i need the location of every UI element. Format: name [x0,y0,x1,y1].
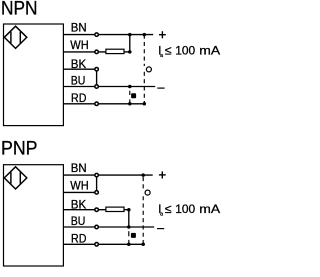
plus terminal NPN [159,31,166,38]
svg-text:100: 100 [175,43,195,57]
terminal BN PNP [95,173,99,177]
terminal BN NPN [95,33,99,37]
dashed load line left NPN [129,91,131,95]
wire BN NPN [64,34,154,36]
sensor symbol (diamond) NPN [4,26,27,48]
svg-text:≤: ≤ [165,43,172,57]
dashed load line right NPN (upper) [143,35,145,66]
svg-text:≤: ≤ [165,202,172,216]
wire link BK to BU terminals NPN [96,69,98,86]
dashed load line left PNP (second dash) [128,240,130,244]
sensor box NPN [4,24,64,126]
node BN-link NPN [128,33,132,37]
svg-text:WH: WH [70,180,88,193]
terminal BK NPN [95,67,99,71]
svg-text:a: a [160,53,163,59]
load square PNP [131,233,136,238]
svg-text:BU: BU [71,75,86,88]
svg-text:mA: mA [199,202,221,216]
svg-text:BK: BK [71,58,87,71]
wire WH NPN (to resistor) [64,51,106,53]
svg-text:RD: RD [71,233,86,246]
wire link BK node to BU PNP [128,210,130,227]
dashed load line right NPN (lower) [143,72,145,104]
wire link BN to WH terminals PNP [96,175,98,192]
sensor box PNP [4,165,64,266]
wire link WH node to BN node NPN [129,35,131,52]
load square NPN [131,93,136,98]
terminal BU NPN [95,85,99,89]
terminal RD NPN [95,102,99,106]
dashed load line left PNP [128,231,130,236]
wire BU NPN [64,86,156,88]
node BN-dashed NPN [143,33,147,37]
svg-text:NPN: NPN [1,0,38,19]
node RD-right NPN [143,102,147,106]
node BN-dashed PNP [141,173,145,177]
terminal RD PNP [95,243,99,247]
svg-text:RD: RD [71,92,86,105]
wire RD PNP [64,243,144,245]
terminal WH PNP [95,191,99,195]
minus terminal NPN [157,87,164,89]
svg-text:BK: BK [71,199,87,212]
sensor symbol (diamond) PNP [4,167,27,189]
svg-text:BN: BN [71,162,87,175]
dashed load line left NPN (second dash) [129,99,131,103]
wire WH PNP [64,191,97,193]
wire RD NPN [64,103,145,105]
output contact circle PNP [145,190,150,195]
svg-text:mA: mA [199,43,221,57]
node RD-left PNP [127,243,131,247]
wire BK NPN [64,68,97,70]
dashed load line right PNP (upper) [142,177,144,189]
svg-text:BU: BU [71,215,86,228]
dashed load line right PNP (lower) [142,196,144,244]
svg-text:a: a [160,211,163,217]
minus terminal PNP [157,228,164,230]
wire BU PNP [64,226,155,228]
output contact circle NPN [146,67,151,72]
node BK-link PNP [127,208,131,212]
svg-text:WH: WH [70,39,88,52]
resistor (load) PNP [106,207,124,211]
wire BK PNP (to resistor) [64,209,106,211]
terminal WH NPN [95,50,99,54]
terminal BU PNP [95,225,99,229]
svg-text:BN: BN [71,22,87,35]
svg-text:PNP: PNP [1,139,38,160]
wire BN PNP [64,174,153,176]
svg-text:100: 100 [175,202,195,216]
wire BK PNP (resistor to node) [125,209,129,211]
node RD-left NPN [128,102,132,106]
node BU-dashed NPN [128,85,132,89]
wire WH NPN (resistor to node) [125,51,130,53]
resistor (load) NPN [106,49,124,53]
plus terminal PNP [159,171,166,178]
node BU-link PNP [127,225,131,229]
node RD-right PNP [141,243,145,247]
terminal BK PNP [95,208,99,212]
node WH-link NPN [128,50,132,54]
current note NPN [158,43,221,59]
current note PNP [158,202,221,218]
